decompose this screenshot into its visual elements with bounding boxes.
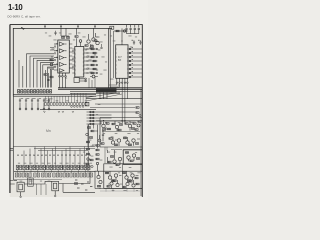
jumper S on top rail	[21, 28, 24, 30]
trim resistor R25	[75, 28, 82, 46]
right edge components	[136, 107, 141, 117]
net label 3 box	[110, 26, 114, 29]
cluster QA4	[135, 121, 141, 131]
output band row2	[15, 173, 92, 177]
nested wire L4	[37, 60, 54, 87]
bottom long wires	[59, 171, 95, 192]
cluster QE1	[107, 180, 119, 189]
IC3 bottom pin routing	[109, 83, 128, 121]
CN2 lower circles	[71, 106, 84, 108]
left cluster box B4	[95, 171, 104, 188]
distribution line under CN2	[40, 109, 96, 111]
drop wires to output band	[24, 147, 89, 165]
connector pin pairs J1-J5	[87, 111, 136, 125]
svg-text:Mn: Mn	[46, 129, 51, 133]
decoupling caps row top right	[125, 25, 139, 34]
board outer frame	[10, 25, 143, 197]
component designator labels (illegible in scan)	[18, 33, 141, 191]
sloped harness lines	[86, 93, 122, 102]
electrolytic cap bank C31-C36	[19, 98, 50, 110]
bus tie	[10, 149, 13, 151]
cluster QF1	[97, 171, 102, 187]
IC2 left pin circles	[72, 50, 73, 67]
IC2	[75, 47, 84, 78]
coupling caps under IC1	[59, 73, 67, 88]
diode D1	[90, 75, 98, 78]
bottom mid marks	[75, 180, 92, 191]
svg-text:1C: 1C	[95, 40, 98, 43]
mid sub-board boundary	[109, 28, 111, 88]
ground stubs between jacks	[37, 184, 47, 195]
box ground stubs	[106, 189, 134, 192]
input coupling caps left of IC1	[48, 31, 57, 68]
bottom distribution bus	[13, 147, 95, 151]
IC3 main processor	[116, 45, 128, 79]
ground bus double line	[13, 95, 96, 97]
bypass caps between IC2 wires	[89, 44, 102, 48]
bottom-left frame corner steps	[10, 181, 15, 185]
wires IC2 to mid boundary	[88, 49, 97, 73]
lower-left cluster QB0	[96, 135, 104, 146]
pre-amp transistor cluster Q1-Q3	[85, 28, 100, 47]
wire from bar down	[86, 98, 142, 100]
box3 divider	[122, 164, 124, 189]
misc comps right of band	[86, 159, 93, 167]
RC network R21 C21	[44, 70, 53, 88]
left feed chain clusters	[86, 124, 98, 148]
op-amp A1	[60, 42, 67, 46]
op-amp A3	[60, 56, 67, 60]
CN1 pin dots	[18, 91, 51, 92]
box1 interior link wire	[102, 132, 140, 164]
nested wire L2	[30, 56, 54, 88]
IC1 pin circles	[54, 46, 56, 68]
cluster QB2	[123, 137, 140, 146]
vertical bundle into divider	[89, 76, 95, 88]
nested wire L3	[34, 58, 55, 87]
nested wire L7	[48, 67, 55, 88]
left feed column resistors	[96, 125, 99, 171]
IC1 dolby processor	[58, 40, 70, 73]
CN2 lead wires up	[45, 93, 86, 102]
IC2 left pins	[72, 49, 75, 73]
IC1 left pins	[54, 44, 58, 70]
cluster QA1	[101, 120, 111, 130]
connector CN1 pin row	[18, 90, 52, 93]
band mid line	[14, 170, 95, 172]
jack pin circles	[20, 195, 56, 197]
sub box B2	[123, 150, 142, 165]
IC2 bottom relay box	[74, 78, 86, 83]
resistor RH	[74, 183, 77, 185]
cluster QE2	[123, 180, 139, 188]
inner frame rail	[13, 28, 112, 96]
band row2 dots	[16, 174, 92, 177]
jack link wires	[14, 180, 52, 184]
left vertical bus pair	[10, 25, 13, 193]
IC3 right pins	[128, 48, 142, 78]
svg-text:DO-90RX C, all tape ver.: DO-90RX C, all tape ver.	[8, 15, 41, 19]
dark connector bar	[96, 88, 117, 92]
wire stub left	[18, 60, 20, 88]
rail junction dots	[44, 26, 95, 27]
sub box B3	[104, 164, 143, 189]
scanned board area tint	[10, 25, 143, 197]
bus lines mid	[70, 92, 142, 94]
op-amp A2	[60, 49, 67, 53]
rail tie stubs	[45, 25, 95, 29]
label box g	[85, 102, 89, 106]
op-amp A4	[60, 62, 67, 66]
IC3 inner pin ticks	[116, 49, 128, 73]
arrow ticks	[44, 111, 74, 113]
right frame inner	[140, 89, 142, 196]
section divider bus	[58, 88, 142, 90]
phono jack J13	[28, 178, 34, 186]
IC3 supply wire	[121, 28, 123, 44]
IC3 left feed wire	[113, 31, 115, 78]
nested wire L1	[27, 54, 55, 88]
cluster QD1	[105, 171, 121, 181]
phone jack J12	[52, 181, 59, 195]
cluster QD2	[122, 171, 138, 181]
output band row1	[16, 165, 90, 170]
IC3 bottom pins	[116, 78, 128, 83]
arrow marks on drops	[17, 155, 91, 157]
electrolytic caps C21 C22	[132, 40, 142, 45]
nested wire L8	[51, 69, 55, 87]
band row1 dots	[17, 167, 89, 168]
cluster QA2	[112, 120, 123, 131]
right mid feed wires	[90, 104, 142, 108]
RC filter R9 C9	[114, 30, 128, 32]
wire stub left2	[22, 66, 24, 88]
inline resistors on IC2 wires	[91, 48, 98, 74]
IC2 inner pin ticks	[75, 50, 84, 74]
cluster QC1	[108, 150, 122, 166]
mid right rail	[96, 120, 142, 122]
sub box B1	[100, 118, 142, 148]
cluster QB1	[109, 137, 121, 146]
IC1 right pins	[69, 44, 72, 68]
band inter-row stubs	[17, 170, 85, 173]
bar drop stubs	[100, 93, 107, 99]
cap CA1	[102, 130, 104, 141]
cluster QA3	[124, 120, 136, 130]
faint under-box line	[100, 190, 140, 192]
band row1 hatches	[18, 166, 89, 169]
feed components x86-92	[86, 125, 89, 171]
bias network above IC1	[61, 28, 70, 38]
nested wire L5	[41, 63, 55, 88]
phone jack J11	[17, 182, 24, 196]
cluster QC2	[125, 152, 139, 162]
pin number labels	[56, 43, 133, 76]
svg-text:1-10: 1-10	[8, 3, 23, 12]
band row2 bottom line	[14, 179, 62, 181]
svg-text:BX: BX	[118, 59, 122, 62]
IC2 right pins	[84, 49, 87, 73]
band row1 inner line	[16, 166, 90, 168]
op-amp A5	[60, 69, 65, 73]
nested wire L6	[43, 65, 54, 88]
IC2 right pin circles	[87, 48, 89, 74]
connector CN2 pin row	[45, 103, 88, 106]
